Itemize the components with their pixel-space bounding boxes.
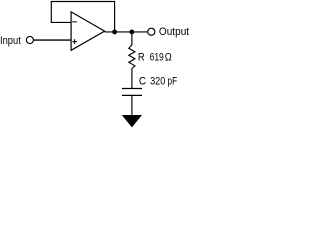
svg-text:320: 320 <box>150 76 165 88</box>
svg-text:Input: Input <box>0 35 21 47</box>
junction output node <box>129 30 134 35</box>
op-amp U1 <box>71 12 105 50</box>
capacitor C top plate <box>122 88 142 90</box>
wire feedback loop <box>51 2 114 33</box>
ground <box>122 115 142 127</box>
svg-text:C: C <box>139 76 146 88</box>
wire node to resistor <box>131 32 133 45</box>
svg-text:619: 619 <box>150 52 164 64</box>
svg-text:Ω: Ω <box>165 52 172 64</box>
junction feedback node <box>112 30 117 35</box>
wire op-amp output <box>105 31 148 33</box>
svg-text:Output: Output <box>159 26 189 38</box>
svg-text:R: R <box>138 52 145 64</box>
svg-text:pF: pF <box>168 76 178 88</box>
wire capacitor to ground <box>131 95 133 115</box>
wire input to op-amp <box>34 39 71 41</box>
op-amp minus sign <box>72 21 77 23</box>
resistor R <box>129 45 135 69</box>
capacitor C bottom plate <box>122 94 142 96</box>
wire resistor to capacitor <box>131 69 133 89</box>
output terminal <box>148 28 155 35</box>
op-amp plus sign <box>72 39 77 44</box>
input terminal <box>26 36 33 43</box>
